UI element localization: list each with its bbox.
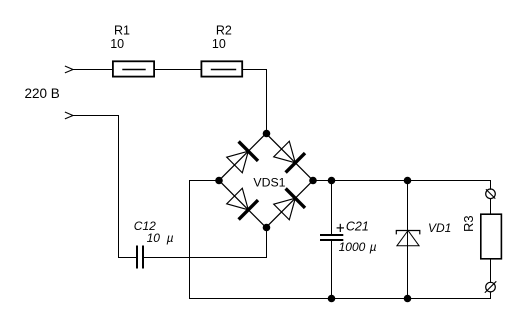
diode VDS1d (bottom-right) xyxy=(274,190,304,220)
junction node bridge right xyxy=(309,177,317,185)
svg-text:10: 10 xyxy=(147,231,161,245)
wire bridge left node to minus rail xyxy=(190,181,220,299)
svg-text:R1: R1 xyxy=(114,23,130,37)
terminal input 2 (arrow) xyxy=(65,112,73,119)
diode VDS1b (top-right) xyxy=(274,141,304,171)
svg-text:C21: C21 xyxy=(346,220,369,234)
wire bridge bottom drop xyxy=(266,228,268,258)
wire R3 to bottom circle xyxy=(490,259,492,282)
svg-text:µ: µ xyxy=(370,240,377,254)
zener diode VD1 xyxy=(396,231,420,246)
wire plus rail (bridge right to R3) xyxy=(313,181,491,190)
plus sign (C21) xyxy=(337,227,343,229)
svg-text:VD1: VD1 xyxy=(428,221,451,235)
output terminal top (circle) xyxy=(486,189,496,199)
capacitor C21 branch wire bottom xyxy=(331,241,333,299)
capacitor C12 xyxy=(136,246,138,269)
svg-text:10: 10 xyxy=(110,37,124,51)
svg-text:1000: 1000 xyxy=(339,240,366,254)
svg-text:220 В: 220 В xyxy=(25,86,60,101)
diode VDS1c (left-bottom) xyxy=(227,188,257,218)
resistor R1 xyxy=(113,61,154,76)
terminal input 1 (arrow) xyxy=(65,66,73,73)
junction node VD1 bottom xyxy=(404,295,412,303)
svg-text:10: 10 xyxy=(212,37,226,51)
output terminal bottom (circle) xyxy=(485,282,496,293)
zener diode VD1 branch wire xyxy=(407,181,409,299)
junction node bridge left xyxy=(215,177,223,185)
wire R2 to bridge top xyxy=(243,70,267,134)
resistor R2 xyxy=(201,61,242,76)
wire terminal1 to R1 xyxy=(73,69,112,71)
resistor R3 xyxy=(481,214,502,259)
diode VDS1a (left-top) xyxy=(227,143,257,173)
svg-text:µ: µ xyxy=(167,231,174,245)
junction node bridge top xyxy=(263,130,271,138)
junction node C21 top xyxy=(328,177,336,185)
junction node C21 bottom xyxy=(328,295,336,303)
bridge VDS1 sides xyxy=(219,134,266,181)
wire R1 to R2 xyxy=(155,69,202,71)
wire C12 to bridge bottom xyxy=(144,257,267,259)
junction node VD1 top xyxy=(404,177,412,185)
capacitor C21 xyxy=(320,234,343,236)
wire terminal top circle to R3 xyxy=(490,199,492,215)
junction node bridge bottom xyxy=(263,224,271,232)
svg-text:R2: R2 xyxy=(216,23,232,37)
capacitor C21 branch wire top xyxy=(331,181,333,235)
svg-text:R3: R3 xyxy=(461,215,476,232)
wire terminal2 down to C12 xyxy=(73,116,136,258)
svg-text:VDS1: VDS1 xyxy=(253,175,285,189)
wire bottom rail xyxy=(190,292,491,299)
